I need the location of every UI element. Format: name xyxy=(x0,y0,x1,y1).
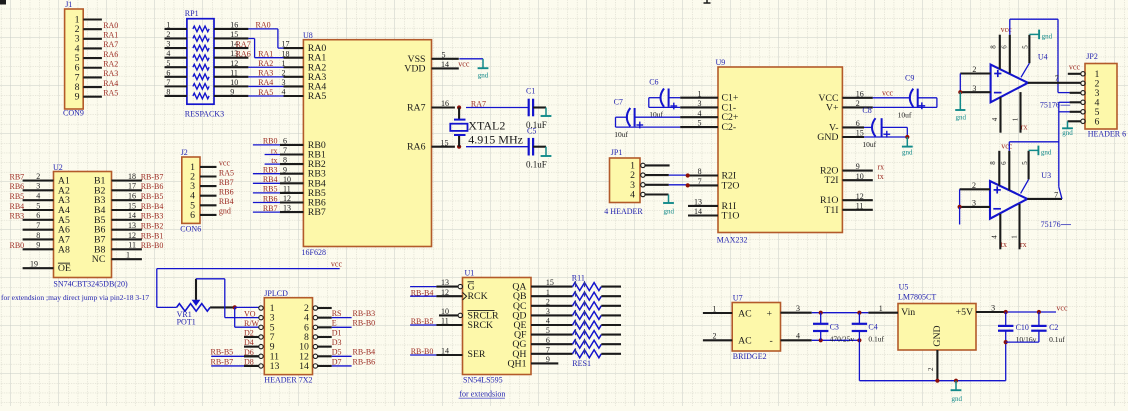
wire from resistor xyxy=(601,353,621,355)
svg-text:9: 9 xyxy=(856,162,860,171)
svg-text:vcc: vcc xyxy=(331,260,343,269)
U1 pin 14 xyxy=(410,354,436,356)
svg-text:13: 13 xyxy=(441,278,449,287)
svg-text:for extendsion: for extendsion xyxy=(459,389,505,398)
svg-text:7: 7 xyxy=(283,146,287,155)
svg-text:GND: GND xyxy=(932,325,943,346)
svg-text:POT1: POT1 xyxy=(177,317,196,326)
svg-text:4: 4 xyxy=(36,192,40,201)
svg-text:RA4: RA4 xyxy=(258,78,273,87)
wire xyxy=(649,97,662,99)
svg-text:4 HEADER: 4 HEADER xyxy=(604,207,643,216)
pin 7 of RP1 xyxy=(165,85,187,87)
U7 pin 1 xyxy=(703,312,732,314)
U2 pin 19 OE xyxy=(23,267,54,269)
svg-text:R11: R11 xyxy=(572,274,585,283)
svg-text:RA6: RA6 xyxy=(236,49,251,58)
svg-text:RA2: RA2 xyxy=(258,59,273,68)
svg-text:RCK: RCK xyxy=(468,291,488,302)
capacitor C1 xyxy=(466,86,547,130)
connector JP2 xyxy=(1081,52,1126,138)
svg-text:U5: U5 xyxy=(899,283,909,292)
svg-text:RB-B4: RB-B4 xyxy=(141,202,164,211)
potentiometer VR1 xyxy=(177,279,211,327)
svg-text:RA5: RA5 xyxy=(258,88,273,97)
svg-text:C7: C7 xyxy=(614,97,623,106)
svg-text:11: 11 xyxy=(230,68,238,77)
U4 pin 8 xyxy=(999,35,1001,69)
U2 pin 14 xyxy=(112,219,142,221)
wire xyxy=(936,98,938,108)
svg-text:13: 13 xyxy=(283,204,291,213)
U8 pin 7 xyxy=(280,153,303,155)
transceiver U9 MAX232 xyxy=(716,58,843,244)
U3 pin 5 xyxy=(1028,151,1030,180)
U1 pin 1 xyxy=(531,295,573,297)
svg-text:RA1: RA1 xyxy=(258,49,273,58)
svg-text:5: 5 xyxy=(698,119,702,128)
U4 pin 2 xyxy=(960,72,990,74)
svg-text:SRCK: SRCK xyxy=(468,320,494,331)
resistor network R11 xyxy=(572,274,602,368)
svg-text:C4: C4 xyxy=(868,323,877,332)
wire xyxy=(1059,111,1070,113)
junction xyxy=(958,205,962,209)
svg-text:5: 5 xyxy=(546,326,550,335)
svg-text:RB5: RB5 xyxy=(10,192,25,201)
U8 pin 8 xyxy=(280,163,303,165)
svg-text:9: 9 xyxy=(75,92,80,103)
JPLCD pin 10 xyxy=(318,346,332,348)
pin 6 of J1 xyxy=(83,67,102,69)
svg-text:C8: C8 xyxy=(862,106,871,115)
svg-text:1: 1 xyxy=(1012,117,1020,121)
svg-text:RB6: RB6 xyxy=(10,182,25,191)
svg-text:C2: C2 xyxy=(1049,323,1058,332)
wire RB6 xyxy=(253,202,280,204)
svg-text:RESPACK3: RESPACK3 xyxy=(185,109,224,118)
J2 pin 6 xyxy=(200,214,217,216)
svg-text:4: 4 xyxy=(630,190,635,201)
svg-text:2: 2 xyxy=(713,332,717,341)
junction xyxy=(958,90,962,94)
svg-text:R/W: R/W xyxy=(244,319,260,328)
svg-text:15: 15 xyxy=(230,30,238,39)
svg-text:GND: GND xyxy=(817,132,838,143)
svg-text:4: 4 xyxy=(698,109,702,118)
JPLCD pin 2 xyxy=(318,307,332,309)
junction xyxy=(905,135,909,139)
capacitor C5 xyxy=(466,127,547,170)
U1 pin 10 xyxy=(439,314,458,316)
svg-text:11: 11 xyxy=(128,241,136,250)
svg-text:U8: U8 xyxy=(303,31,313,40)
driver U4 75176 xyxy=(991,52,1071,109)
svg-text:NC: NC xyxy=(92,254,106,265)
svg-text:18: 18 xyxy=(128,172,136,181)
U8 pin 5 VSS xyxy=(432,58,459,60)
svg-text:RA6: RA6 xyxy=(407,142,426,153)
U9 pin 11 xyxy=(842,209,872,211)
svg-text:RES1: RES1 xyxy=(572,359,591,368)
U2 pin 15 xyxy=(112,209,142,211)
wire xyxy=(332,355,352,357)
U8 pin 10 xyxy=(280,182,303,184)
J2 pin 5 xyxy=(200,204,217,206)
svg-text:RB0: RB0 xyxy=(263,137,278,146)
svg-text:7: 7 xyxy=(698,177,702,186)
U1 pin 11 xyxy=(410,324,436,326)
svg-text:6: 6 xyxy=(1001,45,1009,49)
pin 9 of RP1 xyxy=(214,95,248,97)
svg-text:RB-B2: RB-B2 xyxy=(141,221,164,230)
svg-text:RB-B5: RB-B5 xyxy=(141,192,164,201)
U1 pin 5 xyxy=(531,334,573,336)
U2 pin 4 xyxy=(23,199,54,201)
svg-text:C3: C3 xyxy=(830,323,839,332)
svg-text:0.1uf: 0.1uf xyxy=(1049,335,1065,344)
capacitor C6 xyxy=(649,78,680,120)
JP2 pin 1 vcc xyxy=(1068,73,1081,75)
svg-text:D5: D5 xyxy=(332,348,342,357)
wire vcc rail xyxy=(157,268,340,270)
svg-text:RA2: RA2 xyxy=(103,59,118,68)
svg-text:3: 3 xyxy=(991,303,995,312)
U8 pin 4 xyxy=(284,95,304,97)
svg-text:11: 11 xyxy=(441,317,449,326)
svg-text:RB-B0: RB-B0 xyxy=(141,241,164,250)
svg-text:5: 5 xyxy=(1021,161,1029,165)
JPLCD pin 5 xyxy=(259,325,263,329)
svg-text:17: 17 xyxy=(128,182,136,191)
svg-text:SN74CBT3245DB(20): SN74CBT3245DB(20) xyxy=(53,280,128,289)
svg-text:4: 4 xyxy=(282,88,286,97)
wire RA4 xyxy=(248,85,283,87)
U7 pin 2 xyxy=(703,339,732,341)
JPLCD pin 11 xyxy=(244,355,259,357)
U2 pin 5 xyxy=(23,209,54,211)
U9 pin 3 xyxy=(680,106,718,108)
wire from resistor xyxy=(601,295,621,297)
wire RB0 xyxy=(253,144,280,146)
U8 pin 2 xyxy=(284,76,304,78)
svg-text:D7: D7 xyxy=(332,357,342,366)
svg-text:RA7: RA7 xyxy=(236,40,251,49)
U3 pin 4 xyxy=(999,214,1001,249)
svg-text:6: 6 xyxy=(166,68,170,77)
svg-text:8: 8 xyxy=(36,231,40,240)
svg-text:75176: 75176 xyxy=(1041,220,1061,229)
svg-text:7: 7 xyxy=(1055,74,1059,83)
svg-text:E: E xyxy=(332,319,337,328)
U1 pin 9 xyxy=(531,362,558,364)
wire RA3 xyxy=(248,76,283,78)
svg-text:12: 12 xyxy=(128,231,136,240)
svg-text:10uf: 10uf xyxy=(898,110,912,119)
U3 pin 1 xyxy=(1018,204,1020,249)
svg-text:D3: D3 xyxy=(332,338,342,347)
svg-text:RB-B0: RB-B0 xyxy=(353,319,376,328)
U3 pin 6 xyxy=(1008,151,1010,191)
svg-text:vcc: vcc xyxy=(1069,63,1081,72)
svg-text:gnd: gnd xyxy=(1041,149,1052,157)
svg-text:7: 7 xyxy=(546,345,550,354)
svg-text:RB4: RB4 xyxy=(10,202,25,211)
svg-text:RB-B1: RB-B1 xyxy=(141,231,164,240)
svg-text:J1: J1 xyxy=(65,0,72,9)
capacitor C2 xyxy=(1006,312,1066,344)
svg-text:vcc: vcc xyxy=(1056,303,1068,312)
resistor pack RP1 xyxy=(185,9,224,119)
wire xyxy=(812,339,860,341)
svg-text:JPLCD: JPLCD xyxy=(264,289,288,298)
svg-text:1: 1 xyxy=(879,304,883,313)
svg-text:15: 15 xyxy=(546,278,554,287)
U8 pin 3 xyxy=(284,85,304,87)
U1 pin 2 xyxy=(531,305,573,307)
svg-text:RA3: RA3 xyxy=(103,69,118,78)
wire inputs xyxy=(959,74,961,93)
svg-text:VDD: VDD xyxy=(404,63,425,74)
U4 pin 5 xyxy=(1028,35,1030,63)
pin 16 of RP1 xyxy=(214,28,248,30)
pin 6 of RP1 xyxy=(165,76,187,78)
junction xyxy=(857,338,861,342)
wire from resistor xyxy=(601,343,621,345)
U4 pin 3 xyxy=(960,91,990,93)
U1 pin 6 xyxy=(531,343,573,345)
svg-text:10: 10 xyxy=(856,172,864,181)
svg-text:vcc: vcc xyxy=(1001,142,1013,151)
U1 pin 3 xyxy=(531,314,573,316)
U1 pin 4 xyxy=(531,324,573,326)
svg-text:QH1: QH1 xyxy=(507,358,526,369)
svg-text:6: 6 xyxy=(1000,161,1008,165)
svg-text:RB6: RB6 xyxy=(263,194,278,203)
wire RB7 xyxy=(253,211,280,213)
svg-text:4: 4 xyxy=(991,117,999,121)
svg-text:T1O: T1O xyxy=(722,211,740,222)
svg-text:vcc: vcc xyxy=(458,59,470,68)
capacitor C8 xyxy=(862,106,907,149)
wire xyxy=(1006,311,1056,313)
svg-text:4: 4 xyxy=(991,235,999,239)
crystal XTAL2 xyxy=(450,105,467,148)
svg-text:VO: VO xyxy=(244,309,256,318)
svg-text:4.915 MHz: 4.915 MHz xyxy=(468,132,523,146)
svg-text:RB5: RB5 xyxy=(263,185,278,194)
svg-text:2: 2 xyxy=(972,65,976,74)
svg-text:+5V: +5V xyxy=(956,307,974,318)
pin 2 of RP1 xyxy=(165,37,187,39)
svg-text:rx: rx xyxy=(878,162,885,171)
svg-text:12: 12 xyxy=(856,192,864,201)
U8 pin 17 xyxy=(284,47,304,49)
svg-text:15: 15 xyxy=(441,138,449,147)
svg-text:11: 11 xyxy=(283,185,291,194)
U3 pin 8 xyxy=(998,151,1000,186)
JP2 pin 4 xyxy=(1070,101,1081,103)
svg-text:RB4: RB4 xyxy=(263,175,278,184)
svg-text:RB-B3: RB-B3 xyxy=(353,309,376,318)
pin 8 of RP1 xyxy=(165,95,187,97)
svg-text:RB-B6: RB-B6 xyxy=(353,357,376,366)
regulator U5 LM7805CT xyxy=(898,283,976,350)
JPLCD pin 6 xyxy=(318,326,332,328)
U9 pin 13 xyxy=(688,205,718,207)
wire xyxy=(959,207,961,225)
svg-text:11: 11 xyxy=(856,201,864,210)
svg-text:2: 2 xyxy=(927,367,935,371)
JPLCD pin 8 xyxy=(318,336,332,338)
svg-text:RB7: RB7 xyxy=(219,178,234,187)
svg-text:14: 14 xyxy=(128,211,136,220)
wire to U3 output xyxy=(1058,102,1060,187)
svg-text:10uf: 10uf xyxy=(862,140,876,149)
wire VR1 right terminal xyxy=(210,306,235,308)
U8 pin 6 xyxy=(280,144,303,146)
U8 pin 11 xyxy=(280,192,303,194)
JP1 pin 1 xyxy=(645,164,670,166)
U2 pin 7 xyxy=(23,229,54,231)
U9 pin 5 xyxy=(680,126,718,128)
pin 7 of J1 xyxy=(83,76,102,78)
wire RB5 xyxy=(253,192,280,194)
JPLCD pin 3 xyxy=(259,315,263,319)
U9 pin 15 xyxy=(842,136,864,138)
svg-text:8: 8 xyxy=(989,45,997,49)
U9 pin 6 xyxy=(842,126,864,128)
junction xyxy=(457,145,461,149)
JP1 pin 4 xyxy=(645,193,668,195)
U2 pin 12 xyxy=(112,238,142,240)
U9 pin 1 xyxy=(680,97,718,99)
svg-text:RB3: RB3 xyxy=(263,166,278,175)
capacitor C10 xyxy=(998,312,1037,381)
U2 pin 1 NC xyxy=(112,258,142,260)
svg-text:CON6: CON6 xyxy=(180,225,201,234)
wire to JPLCD pin1 xyxy=(235,306,259,308)
svg-text:9: 9 xyxy=(36,241,40,250)
U9 pin 2 xyxy=(842,106,872,108)
U8 pin 9 xyxy=(280,173,303,175)
ground xyxy=(1029,33,1039,35)
sheet corner mark xyxy=(0,0,6,5)
svg-text:RB6: RB6 xyxy=(219,188,234,197)
wire from resistor xyxy=(601,305,621,307)
U4 pin 1 xyxy=(1019,92,1021,133)
svg-text:1: 1 xyxy=(166,21,170,30)
svg-text:rx: rx xyxy=(271,146,278,155)
svg-text:RA6: RA6 xyxy=(103,50,118,59)
JPLCD pin 9 xyxy=(244,346,259,348)
svg-text:9: 9 xyxy=(283,165,287,174)
U8 pin 13 xyxy=(280,211,303,213)
U2 pin 3 xyxy=(23,189,54,191)
U4 output pin 7 xyxy=(1028,82,1081,84)
svg-text:U9: U9 xyxy=(716,58,726,67)
pin 14 of RP1 xyxy=(214,47,248,49)
svg-text:10: 10 xyxy=(230,78,238,87)
U3 pin 2 xyxy=(960,188,990,190)
svg-text:JP1: JP1 xyxy=(611,148,623,157)
junction xyxy=(857,311,861,315)
bridge rectifier U7 xyxy=(732,294,780,362)
connector JP1 xyxy=(604,148,645,216)
svg-text:rx: rx xyxy=(1020,240,1027,249)
svg-text:3: 3 xyxy=(972,84,976,93)
microcontroller U8 16F628 xyxy=(302,31,432,257)
junction xyxy=(819,338,823,342)
svg-text:-: - xyxy=(770,335,773,346)
pin 3 of RP1 xyxy=(165,47,187,49)
svg-text:16F628: 16F628 xyxy=(302,248,326,257)
junction xyxy=(1004,310,1008,314)
driver U3 75176 xyxy=(990,171,1071,229)
svg-text:14: 14 xyxy=(441,347,449,356)
svg-text:3: 3 xyxy=(36,182,40,191)
wire xyxy=(906,127,908,137)
svg-text:0.1uF: 0.1uF xyxy=(526,160,547,170)
pin 1 of J1 xyxy=(83,18,102,20)
wire rx xyxy=(265,154,280,156)
capacitor C4 xyxy=(852,313,885,344)
svg-text:RB-B5: RB-B5 xyxy=(411,317,434,326)
wire xyxy=(332,326,352,328)
svg-text:gnd: gnd xyxy=(1062,129,1073,137)
svg-text:D1: D1 xyxy=(332,328,342,337)
svg-text:3: 3 xyxy=(698,99,702,108)
svg-text:RA7: RA7 xyxy=(407,103,426,114)
wire xyxy=(812,312,869,314)
svg-text:10: 10 xyxy=(441,307,449,316)
U8 pin 15 RA6 xyxy=(432,146,455,148)
pin 4 of J1 xyxy=(83,47,102,49)
capacitor C3 xyxy=(813,313,854,344)
wire RA5 xyxy=(248,95,283,97)
ground xyxy=(545,147,547,156)
svg-text:C1: C1 xyxy=(526,86,535,95)
wire RB3 xyxy=(253,173,280,175)
svg-text:XTAL2: XTAL2 xyxy=(468,118,505,132)
svg-text:CON9: CON9 xyxy=(63,108,84,117)
svg-text:RA5: RA5 xyxy=(308,91,327,102)
svg-text:RB-B4: RB-B4 xyxy=(411,288,434,297)
wire from resistor xyxy=(601,324,621,326)
svg-text:4: 4 xyxy=(796,332,800,341)
pin 4 of RP1 xyxy=(165,57,187,59)
wire RA1 from RP1 pin15 to U8 pin18 xyxy=(248,37,254,39)
svg-text:6: 6 xyxy=(283,137,287,146)
junction xyxy=(457,105,461,109)
svg-text:gnd: gnd xyxy=(952,395,963,403)
svg-text:12: 12 xyxy=(283,194,291,203)
svg-text:T2O: T2O xyxy=(722,180,740,191)
svg-text:10: 10 xyxy=(283,175,291,184)
U9 pin 8 xyxy=(688,174,718,176)
U9 pin 9 xyxy=(842,170,872,172)
svg-text:U4: U4 xyxy=(1038,52,1048,61)
svg-text:6: 6 xyxy=(856,119,860,128)
wire xyxy=(332,365,352,367)
svg-text:RB-B7: RB-B7 xyxy=(141,172,164,181)
svg-text:A8: A8 xyxy=(58,244,70,255)
svg-text:gnd: gnd xyxy=(478,71,489,79)
svg-text:gnd: gnd xyxy=(902,148,913,156)
svg-text:RB4: RB4 xyxy=(219,197,234,206)
svg-text:U7: U7 xyxy=(733,294,743,303)
svg-text:16: 16 xyxy=(441,99,449,108)
